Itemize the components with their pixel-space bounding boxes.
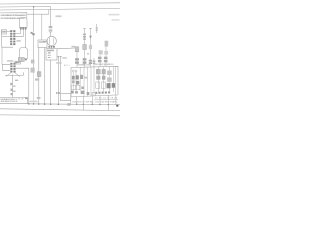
ECU inner wire l	[114, 67, 116, 96]
wire canister pin 2 to C2	[16, 60, 23, 63]
ECU dark box pair 2	[112, 83, 115, 88]
wire label blob 2	[31, 68, 35, 73]
canister component F body	[20, 48, 28, 59]
ECU comp side text	[84, 77, 87, 79]
ECU inner wire e	[87, 67, 89, 96]
fuse coil on pump feed	[49, 26, 53, 32]
ECU inner wire c	[79, 67, 81, 90]
node A junction dot	[33, 6, 35, 8]
ECU feed wire 3	[90, 29, 92, 68]
wire bus L1	[0, 3, 120, 4]
junction dot b8	[83, 104, 85, 106]
junction dot b5	[50, 103, 52, 105]
canister F pins	[20, 59, 22, 61]
ECU mid bottom box	[92, 92, 96, 95]
fuse label box	[2, 30, 7, 34]
feed 1 wire label	[72, 46, 76, 48]
grey splice on bus 1	[67, 103, 71, 105]
feed 2 connector	[83, 45, 87, 50]
box E body	[38, 40, 47, 48]
pin label tick 1	[10, 83, 12, 85]
center drop ticks	[57, 56, 61, 58]
wire bus L4	[0, 13, 27, 18]
wire C2 fan right	[15, 73, 20, 77]
feed 3 marks	[89, 45, 92, 49]
svg-text:EFI: EFI	[64, 65, 70, 67]
wire pump left lead	[43, 40, 47, 42]
bus route box	[61, 94, 71, 101]
junction dot b6	[58, 104, 60, 106]
fuel pump inner detail	[50, 38, 54, 45]
svg-text:SEE PAGE 22-14 FOR: SEE PAGE 22-14 FOR	[1, 100, 18, 103]
bus route box drop	[69, 101, 71, 105]
ECU drop wire 5	[107, 95, 109, 104]
wire feed to box E	[41, 14, 43, 40]
ECU drop wire 4	[99, 96, 101, 105]
wire box G down to bus	[50, 60, 52, 105]
wire drop with labels	[12, 75, 14, 98]
fuse box D outline	[2, 30, 13, 47]
label under connector	[35, 78, 39, 80]
wire box D inner	[2, 36, 11, 38]
legend box outline	[0, 97, 28, 103]
ECU right label box a	[96, 82, 100, 88]
junction dot b9	[92, 104, 94, 106]
svg-text:ENGINE CONT: ENGINE CONT	[78, 65, 92, 67]
bottom bus 2	[0, 109, 120, 111]
wire drop lower faint	[33, 73, 35, 104]
svg-text:ROL UNIT (ECM/ECU): ROL UNIT (ECM/ECU)	[95, 64, 114, 66]
faint header text right 1	[109, 14, 120, 16]
wire C2 right down to bus	[16, 68, 29, 104]
ECU feed wire 6	[99, 55, 101, 66]
ECU drop wire 3	[91, 96, 93, 104]
wire cross feed	[27, 13, 49, 15]
feed 2 plug pair	[83, 58, 87, 60]
svg-text:CIRCUIT DIAGRAM (2.2L ENGINE M: CIRCUIT DIAGRAM (2.2L ENGINE MODEL)	[1, 17, 26, 20]
bottom bus 3	[0, 114, 120, 117]
fuel pump M1 body	[47, 36, 56, 46]
ECU label box row3 a	[71, 86, 75, 90]
wire L3 branch down	[48, 10, 50, 14]
wire pump to box G	[51, 48, 53, 49]
connector C2 pin block	[10, 63, 15, 73]
connector C1 pin block	[10, 30, 15, 45]
ECU right dark a	[96, 76, 100, 80]
wire coil to pump	[50, 32, 52, 36]
wire box E down 1	[38, 48, 40, 105]
wire fuse to connector C1	[7, 31, 11, 33]
feed 3 plug pair	[89, 60, 92, 62]
connector C1 label	[16, 40, 20, 41]
feed 6 upper blob	[99, 50, 103, 54]
junction dot b2	[33, 103, 35, 105]
ECU pin circle 1	[72, 70, 74, 72]
wire canister pin to C2	[14, 60, 21, 63]
feed 6 plug pair	[98, 57, 102, 59]
legend mark	[25, 98, 27, 99]
ECU inner wire h	[97, 67, 99, 92]
feed 3 arrow connector	[89, 36, 92, 39]
ECU comp row2 a	[72, 80, 75, 83]
faint header text right 2	[112, 19, 120, 21]
feed 1 plug pair	[75, 58, 79, 60]
ECU comp hatch row1 a	[72, 76, 75, 80]
ECU pin dot row	[95, 92, 109, 94]
wire box E down 2	[44, 48, 46, 105]
ECU feed wire 4	[93, 58, 95, 67]
junction dot b10	[99, 104, 101, 106]
wire center drop 1	[57, 57, 59, 105]
ECU inner wire i	[103, 67, 105, 92]
wire drop continues	[33, 35, 35, 73]
ECU drop wire 6 terminal	[115, 95, 117, 105]
ECU right hatch a	[96, 69, 100, 74]
junction dot b1	[28, 103, 30, 105]
feed 1 connector	[75, 47, 79, 52]
junction dot b4	[44, 103, 46, 105]
ECU drop wire 5 to bus2	[107, 105, 109, 111]
inline connector on E wire	[37, 72, 41, 77]
feed 2 side label	[87, 53, 89, 54]
ECU right hatch b	[102, 69, 105, 74]
pin tick marks above bus left	[37, 97, 38, 98]
bottom bus 1	[28, 103, 120, 106]
wire bottom bar	[5, 74, 23, 76]
ECU box U1	[71, 66, 118, 97]
ECU comp hatch row1 c	[80, 75, 83, 79]
feed 7 sensor blob	[105, 41, 109, 47]
ECU feed wire 1	[76, 48, 78, 67]
ECU inner wire j	[108, 67, 110, 92]
ECU comp hatch row1 b	[76, 75, 79, 79]
pin tick marks above route box	[56, 92, 58, 94]
ECU inner underline	[94, 98, 118, 101]
ECU feed wire 2	[84, 29, 86, 68]
ECU inner wire g	[93, 67, 95, 93]
ECU bottom row a	[71, 91, 74, 94]
wire C2 fan left	[6, 73, 11, 77]
ECU drop wire 2	[82, 96, 84, 104]
fuse label text	[2, 31, 6, 33]
ECU comp row2 b	[76, 81, 79, 85]
wire C2 right to H1	[16, 61, 21, 64]
pin label tick 2	[13, 86, 15, 87]
feed 2 inline bars	[83, 34, 86, 36]
hatched connector H1	[18, 58, 24, 62]
box G label text	[47, 50, 54, 52]
fuse rating label	[56, 15, 62, 17]
junction dot b11	[108, 104, 110, 106]
pin label tick 4	[13, 91, 15, 92]
wire bar right vertical	[22, 72, 24, 75]
wire center drop 2	[60, 57, 62, 94]
ECU inner wire b	[75, 72, 77, 91]
C2 label text	[7, 60, 13, 61]
box G body	[46, 49, 57, 60]
wire canister left label lead	[14, 62, 20, 64]
ECU drop wire 1	[76, 97, 78, 105]
ECU right dark b	[102, 76, 105, 80]
ECU bottom row c	[81, 91, 85, 94]
faint wire labels above bus	[30, 101, 38, 103]
wire label blob 1	[31, 60, 35, 64]
svg-text:10 12 14 16 18 20: 10 12 14 16 18 20	[95, 97, 118, 99]
feed 7 upper marks	[104, 51, 108, 55]
ECU inner wire f	[90, 67, 92, 96]
fuel pump pins	[48, 46, 50, 48]
box G coil symbol	[48, 52, 51, 57]
ECU right cluster blob 2	[107, 77, 112, 81]
ECU pin circle 2	[75, 70, 77, 72]
wire drop from node A	[33, 7, 35, 33]
dark terminal dot at bus 1 end	[116, 105, 118, 107]
pin label tick 5	[11, 93, 13, 95]
wire relay pin 3 down to canister	[25, 30, 27, 48]
ECU drop wire 2 to bus2	[82, 104, 84, 110]
wire box D down to C2 loop	[1, 47, 3, 64]
ECU bottom row b	[75, 91, 78, 93]
wire box G top right to ECU feed	[57, 47, 77, 50]
ECU inner wire k	[112, 67, 114, 93]
wire relay pin 1	[16, 30, 21, 34]
feed 4 bars	[93, 60, 95, 62]
lead tick labels	[15, 61, 18, 62]
connector splice on drop wire	[31, 32, 33, 34]
wire bus L3	[0, 9, 120, 11]
ECU row3 marks	[81, 87, 84, 90]
relay R1 pins	[20, 28, 22, 30]
ECU right cluster blob 1	[107, 71, 112, 75]
box E text	[39, 41, 46, 42]
pin label tick 3	[11, 89, 13, 91]
C2 fan label	[15, 80, 18, 81]
ECU inner wire a	[72, 72, 74, 91]
relay R1 body	[19, 18, 27, 28]
junction dot b3	[38, 103, 40, 105]
ECU label box row3 b	[77, 86, 80, 90]
feed 3 stub tick	[89, 28, 91, 30]
svg-text:E01 E02 IGT IGF NE+ G22 VTA TH: E01 E02 IGT IGF NE+ G22 VTA THW STA FC	[73, 100, 118, 103]
svg-text:FUEL PUMP AND CIRCUIT OPENING: FUEL PUMP AND CIRCUIT OPENING RELAY SYS	[1, 14, 27, 17]
wire relay pin 2	[16, 30, 24, 37]
ECU right label box b	[101, 82, 105, 88]
feed 5 marks	[96, 27, 98, 29]
wire bus L2	[0, 7, 50, 27]
ECU mid bottom blob	[87, 92, 90, 95]
ECU feed wire 5 stub	[96, 24, 98, 33]
feed 2 stub tick	[83, 28, 85, 30]
wire C2 left loop	[2, 64, 10, 70]
center label text 2	[56, 62, 61, 63]
center label text	[62, 57, 67, 58]
junction dot b7	[76, 103, 78, 105]
feed 7 plug pair	[104, 57, 108, 59]
ECU inner wire d	[83, 67, 85, 96]
ECU dark box pair 1	[107, 83, 111, 88]
ECU feed wire 7	[105, 47, 107, 67]
